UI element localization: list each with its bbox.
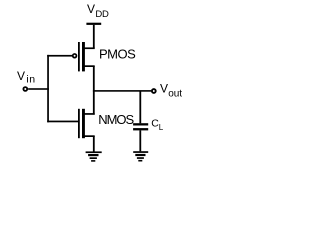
wire PMOS drain down to NMOS drain — [93, 66, 95, 115]
wire PMOS gate wire — [47, 55, 72, 57]
power VDD terminal bar — [86, 23, 101, 25]
svg-text:V: V — [87, 2, 95, 16]
wire NMOS gate wire — [47, 121, 78, 123]
wire Vout horizontal — [93, 90, 151, 92]
ground GND1 under NMOS — [86, 151, 102, 161]
node Vin label — [17, 69, 36, 86]
terminal Vout open circle — [152, 89, 156, 93]
wire Vin gate bus vertical — [47, 55, 49, 122]
NMOS channel bar — [82, 109, 85, 138]
transistor Q2 NMOS — [78, 109, 95, 138]
label CL — [151, 118, 164, 132]
PMOS gate bar — [78, 42, 80, 71]
svg-text:NMOS: NMOS — [98, 112, 134, 127]
wire NMOS drain lead — [83, 113, 94, 115]
NMOS gate bar — [78, 109, 80, 138]
svg-text:in: in — [26, 74, 35, 86]
wire NMOS source to ground — [93, 136, 95, 152]
transistor Q1 PMOS — [73, 42, 95, 71]
wire NMOS source lead — [83, 135, 94, 137]
wire PMOS drain lead — [83, 65, 94, 67]
svg-text:DD: DD — [95, 9, 109, 20]
svg-text:V: V — [160, 82, 168, 96]
wire VDD rail to PMOS source — [93, 25, 95, 49]
svg-text:PMOS: PMOS — [99, 46, 136, 61]
node VDD label — [87, 2, 109, 20]
svg-text:out: out — [168, 89, 182, 100]
svg-text:L: L — [159, 123, 164, 132]
wire Vout to capacitor — [139, 91, 141, 123]
PMOS channel bar — [82, 42, 85, 71]
wire capacitor to ground — [139, 130, 141, 151]
ground GND2 under capacitor — [133, 151, 148, 161]
wire PMOS source lead — [83, 47, 94, 49]
capacitor CL — [133, 123, 148, 130]
node Vout label — [160, 82, 182, 100]
svg-text:V: V — [17, 69, 25, 83]
wire Vin to gate bus — [28, 88, 49, 90]
PMOS gate bubble — [73, 54, 77, 58]
terminal Vin open circle — [23, 87, 27, 91]
